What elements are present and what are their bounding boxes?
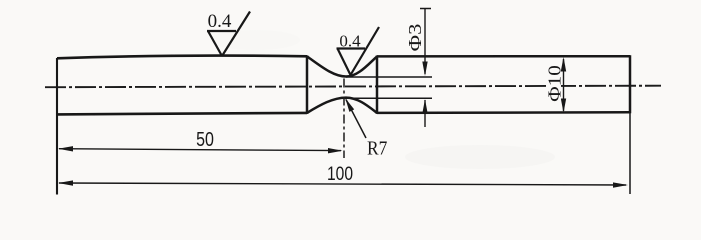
centerline [45, 86, 661, 88]
notch curve top [307, 56, 377, 76]
svg-text:50: 50 [196, 128, 214, 150]
dimension 100 arrow right [613, 182, 628, 187]
phi3 arrow lower [422, 99, 427, 113]
right shoulder line [376, 55, 379, 114]
scan smudge 1 [405, 145, 555, 169]
dimension 100 arrow left [58, 180, 73, 185]
left shoulder line [306, 55, 309, 114]
dimension 100 line [59, 183, 626, 185]
svg-text:Φ10: Φ10 [546, 65, 565, 102]
dimension 50 arrow left [58, 146, 73, 151]
waist center dash-dot line [343, 79, 345, 159]
scan smudge 2 [210, 30, 300, 50]
phi3 extension line lower [345, 97, 432, 99]
specimen top edge right section [377, 55, 630, 58]
R7 leader line [346, 100, 366, 139]
phi10 dimension line [563, 59, 565, 111]
svg-text:0.4: 0.4 [339, 32, 361, 51]
dimension 50 line [59, 149, 341, 151]
specimen bottom edge left section [57, 113, 307, 115]
phi3 dimension line upper with top tick [420, 9, 431, 75]
right end line of bar [629, 55, 632, 113]
phi10 label backing [546, 64, 561, 102]
extension line right [629, 113, 631, 194]
extension line left [56, 58, 58, 195]
svg-text:0.4: 0.4 [208, 11, 232, 32]
roughness symbol 2 check mark [337, 27, 380, 75]
notch curve bottom [307, 98, 377, 113]
specimen top edge left section [57, 56, 307, 59]
phi3 dimension line lower [424, 100, 426, 127]
roughness symbol 1 check mark [207, 12, 250, 57]
phi3 arrow upper [422, 62, 427, 77]
phi10 arrow lower [561, 99, 566, 113]
svg-text:100: 100 [327, 163, 353, 185]
svg-text:R7: R7 [367, 137, 387, 159]
svg-text:Φ3: Φ3 [406, 24, 425, 52]
phi10 arrow upper [561, 57, 566, 72]
dimension 50 arrow right [328, 148, 343, 153]
phi3 extension line upper [346, 76, 432, 78]
specimen bottom edge right section [377, 111, 630, 114]
R7 leader arrow [345, 98, 354, 112]
